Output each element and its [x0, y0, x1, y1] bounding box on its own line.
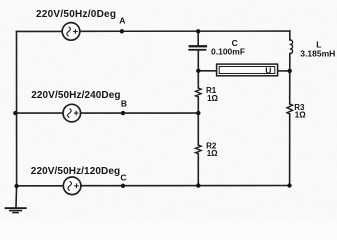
AC source V3 220V/50Hz/120Deg [63, 177, 81, 195]
lamp U rectangle [217, 64, 278, 76]
junction lamp-left dot [196, 69, 200, 73]
svg-text:220V/50Hz/240Deg: 220V/50Hz/240Deg [31, 90, 120, 101]
junction ground dot [14, 184, 18, 188]
wire center branch R2 to bottom [197, 154, 199, 186]
wire bottom from source V3 to right rail [81, 185, 290, 187]
resistor R3 zigzag [287, 104, 293, 114]
ground symbol [5, 207, 27, 213]
inductor L coil [290, 40, 293, 54]
wire lamp right lead [278, 70, 290, 72]
resistor R2 zigzag [196, 145, 202, 154]
junction node B dot [121, 111, 125, 115]
wire ground stem [15, 186, 18, 207]
wire right rail top to L [289, 31, 291, 40]
wire middle from source V2 to center branch [81, 112, 199, 114]
svg-text:U: U [265, 66, 271, 76]
junction left-middle dot [13, 111, 17, 115]
svg-text:C: C [120, 172, 126, 182]
wire left rail [16, 31, 18, 186]
wire bottom-left segment [17, 185, 64, 187]
svg-text:220V/50Hz/120Deg: 220V/50Hz/120Deg [31, 166, 120, 177]
svg-text:1Ω: 1Ω [207, 94, 218, 103]
wire top-left segment [17, 30, 63, 32]
junction bottom-right dot [287, 183, 291, 187]
wire right rail R3 to bottom [289, 114, 291, 186]
svg-text:0.100mF: 0.100mF [211, 46, 245, 56]
wire middle-left segment [17, 112, 63, 114]
wire center branch cap bottom to R1 [197, 51, 199, 88]
junction lamp-right dot [288, 69, 292, 73]
AC source V1 220V/50Hz/0Deg [62, 23, 80, 41]
wire lamp left lead [198, 70, 216, 72]
resistor R1 zigzag [196, 88, 202, 97]
svg-text:1Ω: 1Ω [295, 111, 306, 120]
wire right rail L to R3 [289, 54, 291, 104]
wire top from source V1 to right corner [80, 30, 290, 32]
wire center branch R1 to R2 [197, 97, 199, 145]
AC source V2 220V/50Hz/240Deg [63, 104, 81, 122]
junction node C dot [121, 184, 125, 188]
junction node A dot [120, 29, 124, 33]
svg-text:1Ω: 1Ω [207, 149, 218, 158]
capacitor C plates [188, 45, 207, 51]
background noise (decorative) [0, 0, 1, 1]
svg-text:A: A [119, 16, 125, 26]
svg-text:3.185mH: 3.185mH [300, 48, 335, 58]
svg-text:B: B [121, 98, 127, 108]
svg-text:220V/50Hz/0Deg: 220V/50Hz/0Deg [36, 9, 116, 20]
wire center branch cap top lead [197, 31, 199, 45]
junction bottom-center dot [196, 183, 200, 187]
junction middle-center dot [196, 111, 200, 115]
junction cap-top dot [196, 29, 200, 33]
